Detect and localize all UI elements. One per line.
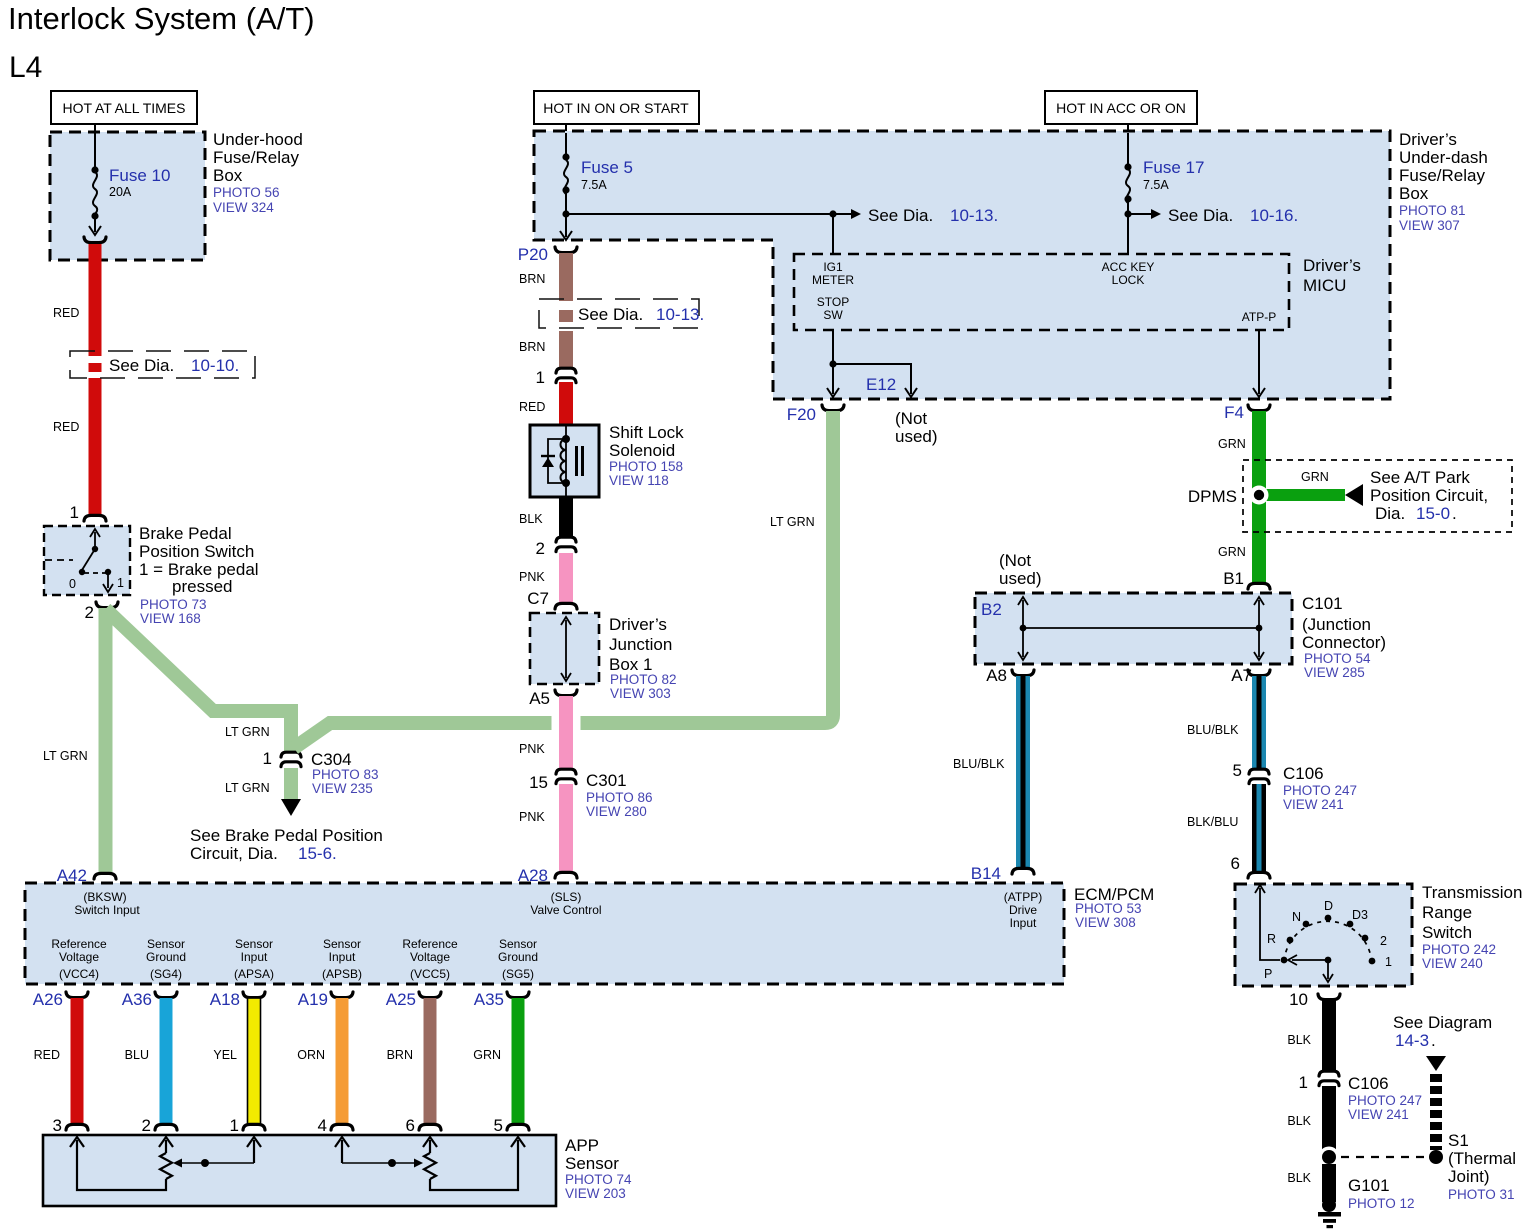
wire STOP SW pin to F20/E12 <box>832 330 834 394</box>
DPMS reference box <box>1243 460 1512 532</box>
svg-text:BLK: BLK <box>1287 1033 1311 1047</box>
svg-text:Sensor: Sensor <box>323 937 361 951</box>
svg-text:Driver’s: Driver’s <box>1303 256 1361 275</box>
thermal joint junction dot <box>1319 1147 1340 1168</box>
svg-text:See Diagram: See Diagram <box>1393 1013 1492 1032</box>
svg-text:Valve Control: Valve Control <box>530 903 601 917</box>
svg-text:(BKSW): (BKSW) <box>83 890 126 904</box>
svg-text:S1: S1 <box>1448 1131 1469 1150</box>
svg-text:PNK: PNK <box>519 810 545 824</box>
S1 arrow head <box>1426 1056 1446 1071</box>
svg-text:PNK: PNK <box>519 742 545 756</box>
see dia 10-10 reference box <box>70 351 255 378</box>
svg-text:Drive: Drive <box>1009 903 1037 917</box>
wire BLK/BLU C106 to TRS pin6 <box>1252 784 1266 872</box>
connector frown at A28 <box>555 872 577 878</box>
connector frown at TRS pin6 <box>1248 872 1270 878</box>
svg-text:See Dia.: See Dia. <box>109 356 174 375</box>
svg-text:PHOTO 73: PHOTO 73 <box>140 597 207 612</box>
svg-text:VIEW 307: VIEW 307 <box>1399 218 1460 233</box>
shift lock solenoid <box>530 425 599 497</box>
svg-text:1: 1 <box>263 749 272 768</box>
svg-text:15: 15 <box>529 773 548 792</box>
svg-text:6: 6 <box>1231 854 1240 873</box>
connector inline pin1 (BRN to RED) <box>556 368 576 382</box>
wire BLK TRS to C106 lower <box>1322 1000 1336 1070</box>
svg-text:Fuse 10: Fuse 10 <box>109 166 170 185</box>
svg-text:Sensor: Sensor <box>147 937 185 951</box>
diode branch <box>548 439 566 483</box>
C101 junction connector box <box>975 593 1292 664</box>
connector frown at A42 <box>94 873 116 879</box>
connector smile at brake switch pin 2 <box>96 602 118 608</box>
svg-text:VIEW 303: VIEW 303 <box>610 686 671 701</box>
white gap where green crosses pink <box>552 713 560 733</box>
svg-text:Position Circuit,: Position Circuit, <box>1370 486 1488 505</box>
DPMS junction dot <box>1250 486 1269 505</box>
svg-text:BLU/BLK: BLU/BLK <box>953 757 1005 771</box>
wire BLK junction to G101 <box>1322 1164 1336 1202</box>
TRS position dots <box>1281 957 1288 964</box>
svg-text:1: 1 <box>1299 1073 1308 1092</box>
svg-text:.: . <box>1431 1031 1436 1050</box>
svg-text:SW: SW <box>823 308 843 322</box>
svg-text:Voltage: Voltage <box>410 950 450 964</box>
svg-text:GRN: GRN <box>473 1048 501 1062</box>
svg-text:Switch Input: Switch Input <box>74 903 140 917</box>
wire IG1 pin drop <box>832 214 834 254</box>
svg-text:YEL: YEL <box>213 1048 237 1062</box>
ground G101 <box>1322 1198 1336 1212</box>
C101 internal bus line <box>1023 627 1259 629</box>
svg-text:2: 2 <box>536 539 545 558</box>
wire fuse5 junction to see dia 10-13 arrow <box>566 213 852 215</box>
svg-text:7.5A: 7.5A <box>1143 178 1169 192</box>
svg-text:Dia.: Dia. <box>1375 504 1405 523</box>
fuse 5 symbol <box>560 133 572 240</box>
svg-text:(APSB): (APSB) <box>322 967 362 981</box>
svg-text:VIEW 241: VIEW 241 <box>1348 1107 1409 1122</box>
svg-text:See Dia.: See Dia. <box>578 305 643 324</box>
connector smile at A8 <box>1012 670 1034 676</box>
C101 internal B2 double arrow <box>1018 597 1028 660</box>
svg-text:2: 2 <box>1380 934 1387 948</box>
APP internal circuit right <box>335 1137 525 1190</box>
svg-text:See Dia.: See Dia. <box>1168 206 1233 225</box>
svg-text:Driver’s: Driver’s <box>609 615 667 634</box>
svg-text:Voltage: Voltage <box>59 950 99 964</box>
svg-text:Input: Input <box>241 950 268 964</box>
connector C304 inline <box>281 752 301 766</box>
svg-text:RED: RED <box>53 420 79 434</box>
svg-text:Reference: Reference <box>402 937 458 951</box>
svg-text:VIEW 235: VIEW 235 <box>312 781 373 796</box>
svg-text:F4: F4 <box>1224 403 1244 422</box>
svg-text:10-13.: 10-13. <box>656 305 704 324</box>
wire BLU/BLK A7 to C106 <box>1252 676 1266 769</box>
svg-text:10-10.: 10-10. <box>191 356 239 375</box>
wire BLU/BLK A8 to B14 <box>1016 676 1030 868</box>
svg-text:Ground: Ground <box>146 950 186 964</box>
svg-text:A8: A8 <box>986 666 1007 685</box>
connector smile at TRS pin10 <box>1318 994 1340 1000</box>
svg-text:LOCK: LOCK <box>1112 273 1145 287</box>
see dia 10-13 reference box <box>539 299 699 328</box>
svg-text:(SLS): (SLS) <box>551 890 582 904</box>
fuse 10 symbol <box>89 133 101 235</box>
svg-text:IG1: IG1 <box>823 260 843 274</box>
svg-text:ATP-P: ATP-P <box>1242 310 1276 324</box>
svg-text:A19: A19 <box>298 990 328 1009</box>
connector smile at A7 <box>1248 670 1270 676</box>
connector C301 inline <box>556 769 576 783</box>
wire PNK C301 to A28 <box>559 784 573 872</box>
wire BRN A25 <box>424 998 437 1124</box>
svg-text:20A: 20A <box>109 185 132 199</box>
wire stub from HOT label to fuse box <box>94 124 96 133</box>
svg-text:C101: C101 <box>1302 594 1343 613</box>
svg-text:(VCC5): (VCC5) <box>410 967 450 981</box>
connector frown at B1 <box>1248 583 1270 589</box>
svg-text:Driver’s: Driver’s <box>1399 130 1457 149</box>
svg-text:BRN: BRN <box>519 340 545 354</box>
label HOT IN ON OR START <box>534 91 699 124</box>
connector frown at C7 <box>555 603 577 609</box>
svg-text:P20: P20 <box>518 245 548 264</box>
svg-text:PHOTO 247: PHOTO 247 <box>1283 783 1357 798</box>
transmission range switch box <box>1235 884 1412 986</box>
S1 junction dot <box>1429 1150 1443 1164</box>
svg-text:Box: Box <box>213 166 243 185</box>
wire RED inside see-dia box <box>89 363 102 372</box>
svg-text:VIEW 280: VIEW 280 <box>586 804 647 819</box>
svg-text:RED: RED <box>53 306 79 320</box>
TRS internal pin6 line <box>1255 885 1280 960</box>
svg-text:Transmission: Transmission <box>1422 883 1522 902</box>
svg-text:See Brake Pedal Position: See Brake Pedal Position <box>190 826 383 845</box>
wire BRN P20 to see-dia box <box>559 253 573 301</box>
wire ATP-P pin to F4 <box>1258 330 1260 394</box>
connector smile at F20 <box>822 405 844 411</box>
svg-text:C301: C301 <box>586 771 627 790</box>
svg-text:VIEW 285: VIEW 285 <box>1304 665 1365 680</box>
svg-text:10-13.: 10-13. <box>950 206 998 225</box>
connector cup at fuse box exit <box>84 237 106 243</box>
svg-text:GRN: GRN <box>1218 437 1246 451</box>
svg-text:VIEW 168: VIEW 168 <box>140 611 201 626</box>
svg-text:Fuse/Relay: Fuse/Relay <box>213 148 299 167</box>
svg-text:PHOTO 56: PHOTO 56 <box>213 185 280 200</box>
svg-text:F20: F20 <box>787 405 816 424</box>
svg-text:Sensor: Sensor <box>499 937 537 951</box>
svg-text:HOT IN ACC OR ON: HOT IN ACC OR ON <box>1056 100 1186 116</box>
svg-text:.: . <box>1452 504 1457 523</box>
connector frown at brake switch pin 1 <box>84 515 106 521</box>
svg-text:Under-dash: Under-dash <box>1399 148 1488 167</box>
svg-text:Circuit, Dia.: Circuit, Dia. <box>190 844 278 863</box>
svg-text:A25: A25 <box>386 990 416 1009</box>
connector inline pin2 (BLK to PNK) <box>556 537 576 551</box>
svg-text:APP: APP <box>565 1136 599 1155</box>
wire stub HOT ACC to box <box>1127 124 1129 133</box>
svg-text:VIEW 241: VIEW 241 <box>1283 797 1344 812</box>
svg-text:PHOTO 247: PHOTO 247 <box>1348 1093 1422 1108</box>
svg-text:Position Switch: Position Switch <box>139 542 254 561</box>
svg-text:HOT AT ALL TIMES: HOT AT ALL TIMES <box>63 100 186 116</box>
wire ORN A19 <box>336 998 349 1124</box>
svg-text:(SG4): (SG4) <box>150 967 182 981</box>
svg-text:BLK: BLK <box>519 512 543 526</box>
APP sensor box <box>43 1135 556 1206</box>
svg-text:RED: RED <box>519 400 545 414</box>
TRS wiper line <box>1288 955 1333 982</box>
drivers MICU box <box>794 254 1289 330</box>
svg-text:C7: C7 <box>527 589 549 608</box>
svg-text:(Not: (Not <box>895 409 927 428</box>
svg-text:Ground: Ground <box>498 950 538 964</box>
svg-text:VIEW 240: VIEW 240 <box>1422 956 1483 971</box>
svg-text:PHOTO 83: PHOTO 83 <box>312 767 379 782</box>
svg-text:2: 2 <box>142 1116 151 1135</box>
coil <box>561 439 567 483</box>
svg-text:Fuse 5: Fuse 5 <box>581 158 633 177</box>
svg-text:See A/T Park: See A/T Park <box>1370 468 1470 487</box>
wire GRN A35 <box>512 998 525 1124</box>
svg-text:Switch: Switch <box>1422 923 1472 942</box>
svg-text:BLU/BLK: BLU/BLK <box>1187 723 1239 737</box>
svg-text:10: 10 <box>1289 990 1308 1009</box>
svg-text:PHOTO 81: PHOTO 81 <box>1399 203 1466 218</box>
wire stub HOT ON/START to box <box>565 124 567 133</box>
svg-text:PHOTO 74: PHOTO 74 <box>565 1172 632 1187</box>
connector smile at A5 <box>555 690 577 696</box>
svg-text:PHOTO 12: PHOTO 12 <box>1348 1196 1415 1211</box>
arrow to brake pedal position circuit <box>281 799 301 816</box>
svg-text:1: 1 <box>117 576 124 590</box>
svg-text:Junction: Junction <box>609 635 672 654</box>
S1 segmented thermal wire <box>1430 1074 1442 1082</box>
svg-text:Interlock System (A/T): Interlock System (A/T) <box>8 1 315 36</box>
svg-text:C106: C106 <box>1283 764 1324 783</box>
svg-text:D: D <box>1324 899 1333 913</box>
connector frown at B14 <box>1012 868 1034 874</box>
svg-text:15-0: 15-0 <box>1416 504 1450 523</box>
svg-text:10-16.: 10-16. <box>1250 206 1298 225</box>
wire fuse17 to see dia 10-16 arrow <box>1128 213 1152 215</box>
wire PNK A5 to C301 <box>559 696 573 769</box>
wire GRN F4 to B1 <box>1252 411 1266 583</box>
svg-text:BLK/BLU: BLK/BLU <box>1187 815 1238 829</box>
svg-text:BLU: BLU <box>125 1048 149 1062</box>
svg-text:1: 1 <box>70 503 79 522</box>
svg-text:0: 0 <box>69 577 76 591</box>
svg-text:LT GRN: LT GRN <box>225 781 270 795</box>
svg-text:BLK: BLK <box>1287 1171 1311 1185</box>
svg-text:R: R <box>1267 932 1276 946</box>
wire YEL A18 <box>248 998 261 1124</box>
svg-text:PHOTO 53: PHOTO 53 <box>1075 901 1142 916</box>
svg-text:PHOTO 158: PHOTO 158 <box>609 459 683 474</box>
wire LT GRN diagonal brake switch to C304 run <box>106 609 292 753</box>
svg-text:Solenoid: Solenoid <box>609 441 675 460</box>
svg-text:See Dia.: See Dia. <box>868 206 933 225</box>
svg-text:14-3: 14-3 <box>1395 1031 1429 1050</box>
wire LT GRN F20 down and left to C304 diagonal <box>294 411 833 748</box>
svg-text:C106: C106 <box>1348 1074 1389 1093</box>
connector smile at P20 <box>555 247 577 253</box>
core bars <box>575 446 578 476</box>
svg-text:Brake Pedal: Brake Pedal <box>139 524 232 543</box>
connector frowns above APP <box>66 1124 529 1130</box>
svg-text:STOP: STOP <box>817 295 849 309</box>
dashed link to S1 <box>1341 1156 1427 1158</box>
svg-text:A26: A26 <box>33 990 63 1009</box>
svg-text:2: 2 <box>85 603 94 622</box>
svg-text:4: 4 <box>318 1116 327 1135</box>
under-hood fuse/relay box <box>50 132 205 260</box>
svg-text:LT GRN: LT GRN <box>770 515 815 529</box>
svg-text:(ATPP): (ATPP) <box>1004 890 1042 904</box>
svg-text:Range: Range <box>1422 903 1472 922</box>
svg-text:5: 5 <box>1233 761 1242 780</box>
svg-text:ACC KEY: ACC KEY <box>1102 260 1155 274</box>
wire PNK pin2 to C7 <box>559 553 573 603</box>
svg-text:3: 3 <box>53 1116 62 1135</box>
ECM/PCM box <box>25 883 1064 984</box>
svg-text:A5: A5 <box>529 689 550 708</box>
svg-text:PHOTO 82: PHOTO 82 <box>610 672 677 687</box>
svg-text:LT GRN: LT GRN <box>225 725 270 739</box>
junction box internal arrow <box>561 617 571 681</box>
connector smiles under ECM <box>66 992 529 998</box>
svg-text:used): used) <box>999 569 1042 588</box>
svg-text:5: 5 <box>494 1116 503 1135</box>
svg-text:Sensor: Sensor <box>235 937 273 951</box>
svg-text:PHOTO 242: PHOTO 242 <box>1422 942 1496 957</box>
svg-text:Fuse 17: Fuse 17 <box>1143 158 1204 177</box>
svg-text:Reference: Reference <box>51 937 107 951</box>
wire BLK C106 to junction <box>1322 1086 1336 1150</box>
svg-text:D3: D3 <box>1352 908 1368 922</box>
brake pedal position switch box <box>44 526 130 595</box>
svg-text:(VCC4): (VCC4) <box>59 967 99 981</box>
label HOT AT ALL TIMES <box>51 91 197 124</box>
wire GRN DPMS branch <box>1263 489 1345 501</box>
wire RED pin1 to solenoid <box>559 382 573 425</box>
svg-text:GRN: GRN <box>1301 470 1329 484</box>
svg-text:A36: A36 <box>122 990 152 1009</box>
svg-text:Under-hood: Under-hood <box>213 130 303 149</box>
svg-text:6: 6 <box>406 1116 415 1135</box>
svg-text:PHOTO 54: PHOTO 54 <box>1304 651 1371 666</box>
svg-text:N: N <box>1292 910 1301 924</box>
svg-text:15-6.: 15-6. <box>298 844 337 863</box>
svg-text:B2: B2 <box>981 600 1002 619</box>
wire RED see-dia box to brake switch <box>89 378 102 516</box>
connector C106 lower inline <box>1319 1071 1339 1085</box>
drivers junction box 1 <box>530 613 599 684</box>
svg-text:BLK: BLK <box>1287 1114 1311 1128</box>
svg-text:A35: A35 <box>474 990 504 1009</box>
svg-text:Fuse/Relay: Fuse/Relay <box>1399 166 1485 185</box>
wire BRN inside see-dia box <box>559 310 573 322</box>
svg-text:Connector): Connector) <box>1302 633 1386 652</box>
svg-text:P: P <box>1264 967 1272 981</box>
svg-text:7.5A: 7.5A <box>581 178 607 192</box>
wire LT GRN brake switch to A42 <box>99 608 113 874</box>
brake switch symbol <box>45 529 113 592</box>
svg-text:(Junction: (Junction <box>1302 615 1371 634</box>
drivers under-dash fuse/relay box <box>534 131 1390 399</box>
svg-text:PHOTO 86: PHOTO 86 <box>586 790 653 805</box>
svg-text:BRN: BRN <box>387 1048 413 1062</box>
svg-text:(SG5): (SG5) <box>502 967 534 981</box>
svg-text:pressed: pressed <box>172 577 232 596</box>
svg-text:DPMS: DPMS <box>1188 487 1237 506</box>
ECM column captions <box>51 937 538 981</box>
svg-text:VIEW 203: VIEW 203 <box>565 1186 626 1201</box>
wire BLU A36 <box>160 998 173 1124</box>
svg-text:MICU: MICU <box>1303 276 1346 295</box>
svg-text:G101: G101 <box>1348 1176 1390 1195</box>
svg-text:BRN: BRN <box>519 272 545 286</box>
svg-text:Box: Box <box>1399 184 1429 203</box>
svg-text:ORN: ORN <box>297 1048 325 1062</box>
svg-text:Sensor: Sensor <box>565 1154 619 1173</box>
svg-text:GRN: GRN <box>1218 545 1246 559</box>
svg-text:Input: Input <box>329 950 356 964</box>
svg-text:used): used) <box>895 427 938 446</box>
svg-text:1: 1 <box>536 368 545 387</box>
svg-text:(APSA): (APSA) <box>234 967 274 981</box>
APP internal circuit left <box>70 1137 261 1190</box>
svg-text:RED: RED <box>34 1048 60 1062</box>
svg-text:METER: METER <box>812 273 854 287</box>
svg-text:VIEW 324: VIEW 324 <box>213 200 274 215</box>
svg-text:1: 1 <box>230 1116 239 1135</box>
TRS selector arc dashed <box>1284 921 1371 961</box>
label HOT IN ACC OR ON <box>1045 91 1197 124</box>
svg-text:PHOTO 31: PHOTO 31 <box>1448 1187 1515 1202</box>
wire LT GRN C304 to arrow <box>284 768 298 800</box>
svg-text:Shift Lock: Shift Lock <box>609 423 684 442</box>
svg-text:A18: A18 <box>210 990 240 1009</box>
wire BRN see-dia to inline connector 1 <box>559 331 573 368</box>
connector smile at F4 <box>1248 405 1270 411</box>
svg-text:B14: B14 <box>971 864 1001 883</box>
svg-text:Input: Input <box>1010 916 1037 930</box>
svg-text:PNK: PNK <box>519 570 545 584</box>
svg-text:1: 1 <box>1385 955 1392 969</box>
wire RED A26 <box>71 998 84 1124</box>
wire E12 branch to not-used <box>833 364 911 394</box>
svg-text:E12: E12 <box>866 375 896 394</box>
svg-text:Joint): Joint) <box>1448 1167 1490 1186</box>
wire RED fuse10 to see-dia box <box>89 244 102 356</box>
connector C106 upper inline <box>1249 769 1269 783</box>
arrow to A/T park position circuit <box>1345 484 1363 506</box>
svg-text:VIEW 118: VIEW 118 <box>609 473 669 488</box>
svg-text:LT GRN: LT GRN <box>43 749 88 763</box>
svg-text:HOT IN ON OR START: HOT IN ON OR START <box>543 100 689 116</box>
svg-text:L4: L4 <box>9 51 42 84</box>
C101 internal B1/A7 double arrow <box>1254 597 1264 660</box>
svg-text:(Thermal: (Thermal <box>1448 1149 1516 1168</box>
wire BLK solenoid to pin2 <box>559 497 573 537</box>
svg-text:B1: B1 <box>1223 569 1244 588</box>
svg-text:(Not: (Not <box>999 551 1031 570</box>
svg-text:VIEW 308: VIEW 308 <box>1075 915 1136 930</box>
